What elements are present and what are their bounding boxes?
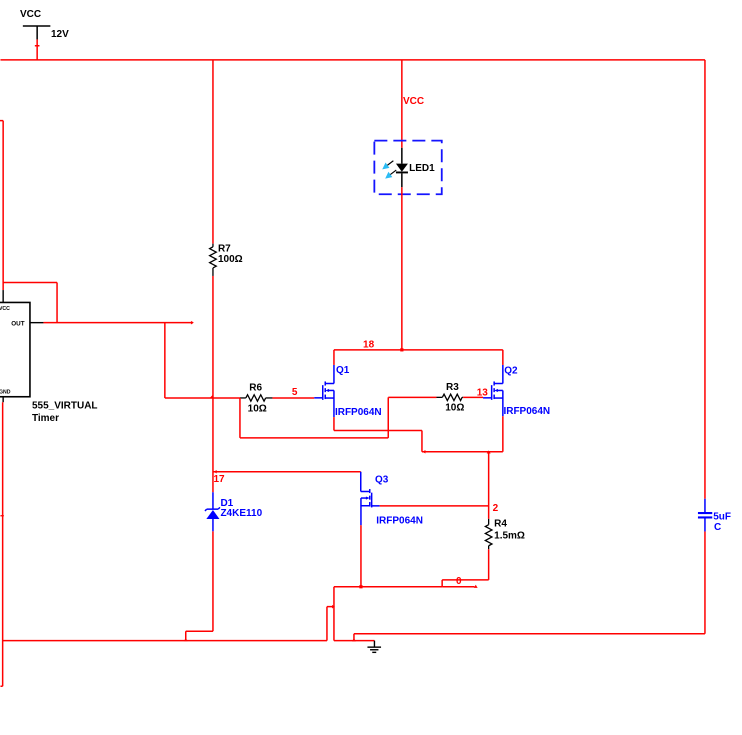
junction arrow at R7/node5 crossing (210, 395, 213, 398)
junction arrow at hop (332, 605, 335, 609)
wire right rail upper (to capacitor) (704, 60, 706, 499)
wire 555 VCC from left edge (0, 121, 3, 290)
junction arrow at node17 (214, 470, 217, 474)
transistor Q2 (483, 365, 503, 416)
wire Q1 drain (333, 350, 335, 365)
power VCC symbol (23, 26, 51, 40)
555 pin OUT stub (30, 322, 43, 324)
LED arrow 2 (390, 170, 397, 175)
junction tick on VCC stub (35, 45, 40, 47)
transistor Q1 (314, 365, 334, 417)
wire Q3 gate to node2 column (380, 505, 489, 507)
junction arrow at D1 ground tap (184, 638, 188, 641)
wire R4 bottom to net0 (334, 549, 489, 587)
svg-text:C: C (714, 522, 721, 533)
svg-text:12V: 12V (51, 29, 69, 40)
wire bottom right rail (354, 633, 705, 635)
wire Q2 source down (502, 416, 504, 452)
svg-text:VCC: VCC (0, 306, 10, 312)
capacitor C (698, 499, 712, 532)
wire right rail lower (capacitor to bottom) (704, 531, 706, 633)
resistor R4 (485, 519, 492, 549)
555 pin GND stub (2, 397, 4, 403)
junction arrow node2 tap (487, 450, 491, 453)
junction arrow at ground rail x353.5 (352, 638, 356, 641)
svg-text:10Ω: 10Ω (445, 403, 464, 414)
resistor R6 (240, 395, 272, 401)
svg-text:VCC: VCC (20, 9, 41, 20)
svg-text:D1: D1 (220, 498, 233, 509)
svg-text:10Ω: 10Ω (248, 403, 267, 414)
svg-text:5uF: 5uF (713, 511, 731, 522)
wire Q3 source down to net0 (360, 525, 362, 587)
svg-text:IRFP064N: IRFP064N (503, 406, 550, 417)
svg-text:2: 2 (493, 503, 499, 514)
wire node5 feedback down-right to R3 (240, 397, 437, 438)
svg-text:1.5mΩ: 1.5mΩ (494, 531, 525, 542)
LED LED1 (382, 148, 408, 187)
svg-text:LED1: LED1 (409, 163, 435, 174)
junction dot Q3 source/net0 (359, 585, 362, 588)
svg-text:Q2: Q2 (504, 366, 518, 377)
wire net0 drop to ground rail (334, 587, 375, 641)
svg-text:5: 5 (292, 387, 298, 398)
resistor R7 (210, 244, 217, 276)
wire drop from bottom-right rail to ground rail (353, 634, 355, 641)
wire Q2 drain (502, 350, 504, 365)
LED LED1 box (dashed) (374, 141, 441, 195)
wire node 18 (drain rail Q1-Q2) (334, 349, 503, 351)
wire node2 down to R4 (488, 452, 490, 519)
555 timer U1 box (0, 302, 30, 396)
svg-text:17: 17 (213, 474, 225, 485)
resistor R3 (436, 394, 463, 400)
junction dot LED/node18 (400, 348, 403, 351)
transistor Q3 (361, 472, 380, 526)
arrow at net0 stub end (474, 585, 478, 588)
wire ground rail left (3, 640, 327, 642)
wire R6 to Q1 gate (272, 397, 314, 399)
svg-text:555_VIRTUAL: 555_VIRTUAL (32, 400, 98, 411)
wire VCC symbol to top rail (36, 39, 38, 59)
junction tick on GND wire (0, 515, 3, 517)
svg-text:18: 18 (363, 340, 375, 351)
wire LED branch from top rail (401, 60, 403, 148)
svg-text:Z4KE110: Z4KE110 (220, 508, 262, 519)
555 pin VCC stub (2, 290, 4, 302)
svg-text:OUT: OUT (11, 321, 24, 328)
arrow at OUT wire end (191, 321, 194, 325)
diode D1 (205, 492, 220, 531)
svg-text:VCC: VCC (403, 96, 424, 107)
ground (367, 641, 381, 653)
wire Q1 source down and over (334, 417, 422, 452)
svg-text:IRFP064N: IRFP064N (376, 516, 423, 527)
wire OUT drop to gate-drive node (165, 323, 240, 398)
wire source rail node2 (422, 451, 503, 453)
wire 555 OUT (43, 322, 193, 324)
svg-text:R7: R7 (218, 244, 231, 255)
wire LED bottom to node 18 (401, 187, 403, 350)
svg-text:Q1: Q1 (336, 365, 350, 376)
svg-text:13: 13 (477, 388, 489, 399)
wire top VCC rail (0, 59, 705, 61)
svg-text:IRFP064N: IRFP064N (335, 407, 382, 418)
junction arrow at corner x421.5 (422, 450, 425, 454)
svg-text:GND: GND (0, 390, 11, 396)
svg-text:Q3: Q3 (375, 474, 389, 485)
wire 555 GND down to ground rail (0, 402, 2, 686)
wire R3 to Q2 gate (463, 396, 483, 398)
wire node17 to Q3 drain (213, 471, 361, 473)
svg-text:100Ω: 100Ω (218, 254, 243, 265)
wire R7 bottom to node17/D1 (212, 276, 214, 492)
svg-text:Timer: Timer (32, 413, 59, 424)
svg-text:R3: R3 (446, 382, 459, 393)
wire VCC-pin node over to OUT wire (3, 282, 57, 322)
LED arrow 1 (387, 161, 394, 166)
svg-text:R6: R6 (249, 382, 262, 393)
wire ground rail hop (327, 607, 334, 641)
wire R7 branch from top rail (212, 60, 214, 244)
wire D1 bottom to ground rail (186, 531, 213, 640)
svg-text:0: 0 (456, 576, 462, 587)
svg-text:R4: R4 (494, 519, 507, 530)
wire net0 stub right (442, 586, 474, 588)
